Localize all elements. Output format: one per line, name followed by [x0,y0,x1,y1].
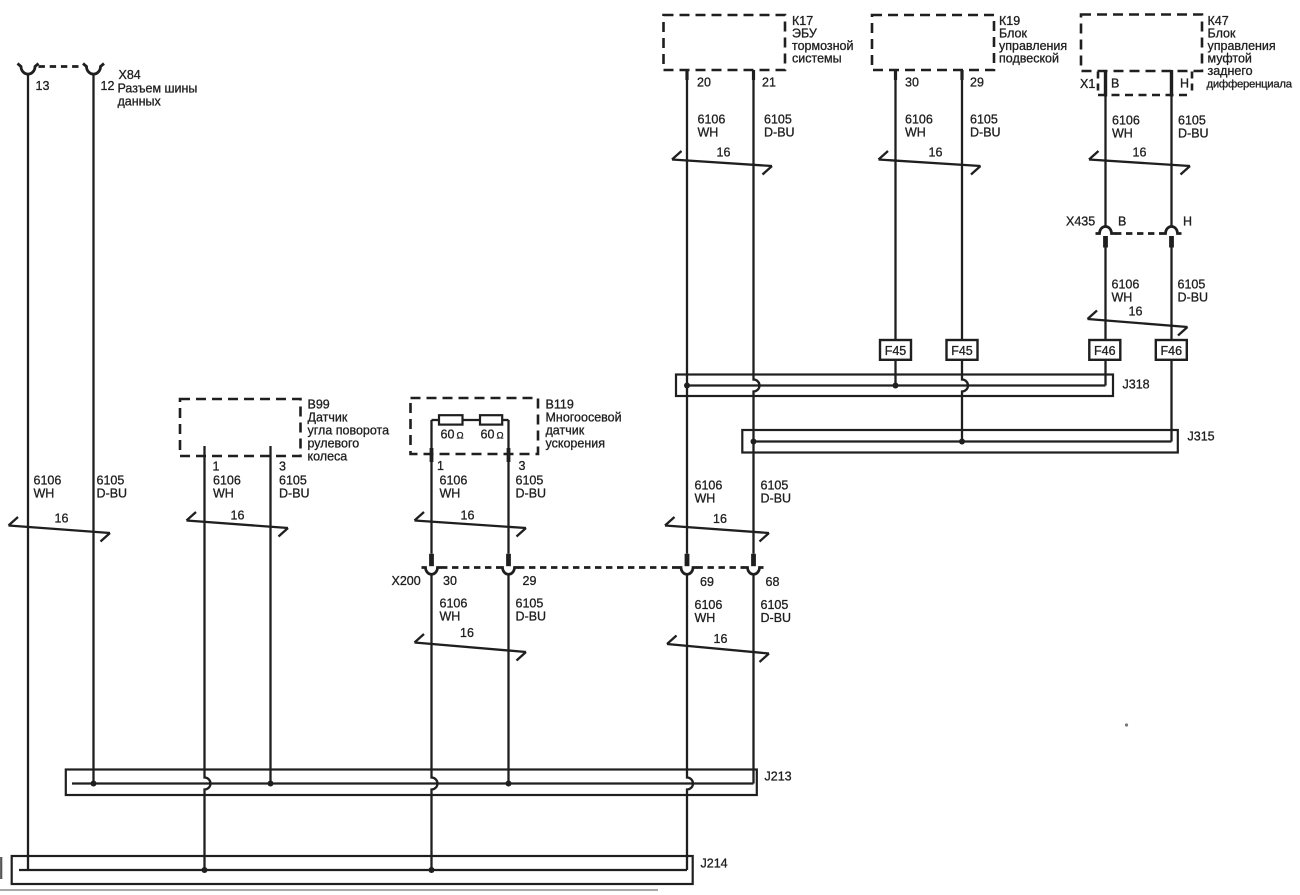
svg-text:D-BU: D-BU [516,610,547,624]
svg-text:WH: WH [698,126,719,140]
svg-text:D-BU: D-BU [1178,127,1209,141]
svg-text:30: 30 [905,76,919,90]
svg-text:D-BU: D-BU [970,126,1001,140]
svg-text:16: 16 [231,509,245,523]
svg-text:J214: J214 [701,857,728,871]
svg-text:D-BU: D-BU [764,126,795,140]
svg-text:WH: WH [440,610,461,624]
svg-text:В119: В119 [546,398,574,412]
svg-text:WH: WH [695,611,716,625]
svg-text:F45: F45 [885,344,907,358]
svg-text:дифференциала: дифференциала [1207,79,1293,91]
svg-text:6105: 6105 [1178,114,1206,128]
svg-text:6105: 6105 [97,474,125,488]
svg-text:16: 16 [1133,146,1147,160]
svg-text:Ω: Ω [457,431,464,442]
svg-text:16: 16 [461,509,475,523]
svg-text:Датчик: Датчик [308,411,348,425]
svg-text:60: 60 [481,428,495,442]
svg-text:1: 1 [437,459,444,473]
svg-text:WH: WH [34,487,55,501]
svg-text:6105: 6105 [279,474,307,488]
svg-text:WH: WH [440,487,461,501]
svg-text:X84: X84 [119,68,141,82]
svg-text:угла поворота: угла поворота [308,424,390,438]
svg-text:X435: X435 [1066,215,1095,229]
svg-text:D-BU: D-BU [516,487,547,501]
svg-text:J315: J315 [1188,430,1215,444]
svg-text:6105: 6105 [516,597,544,611]
svg-text:16: 16 [713,512,727,526]
svg-text:F45: F45 [951,344,973,358]
svg-text:6106: 6106 [440,474,468,488]
svg-text:B: B [1111,77,1119,91]
svg-text:рулевого: рулевого [308,437,360,451]
svg-text:20: 20 [697,76,711,90]
svg-text:60: 60 [441,428,455,442]
svg-text:Многоосевой: Многоосевой [546,411,622,425]
svg-text:X1: X1 [1080,77,1095,91]
svg-text:Ω: Ω [497,431,504,442]
svg-text:6106: 6106 [213,474,241,488]
svg-text:B: B [1118,215,1126,229]
svg-text:6106: 6106 [905,113,933,127]
svg-text:WH: WH [213,487,234,501]
svg-text:6105: 6105 [970,113,998,127]
svg-text:21: 21 [762,76,776,90]
svg-text:D-BU: D-BU [279,487,310,501]
svg-text:69: 69 [700,575,714,589]
svg-text:Разъем шины: Разъем шины [118,82,198,96]
svg-text:16: 16 [717,146,731,160]
svg-text:колеса: колеса [308,450,348,464]
svg-text:H: H [1183,215,1192,229]
svg-text:системы: системы [792,52,842,66]
svg-text:3: 3 [279,460,286,474]
svg-text:16: 16 [714,632,728,646]
svg-text:подвеской: подвеской [999,52,1059,66]
svg-text:WH: WH [1112,127,1133,141]
svg-text:WH: WH [905,126,926,140]
svg-text:13: 13 [36,79,50,93]
svg-text:J213: J213 [765,770,792,784]
svg-text:6106: 6106 [440,597,468,611]
svg-text:F46: F46 [1094,344,1116,358]
svg-text:F46: F46 [1161,344,1183,358]
svg-text:B99: B99 [308,398,330,412]
svg-text:29: 29 [970,76,984,90]
svg-text:WH: WH [695,492,716,506]
svg-text:6105: 6105 [516,474,544,488]
svg-text:D-BU: D-BU [1178,291,1209,305]
svg-text:H: H [1180,77,1189,91]
svg-text:68: 68 [766,575,780,589]
svg-text:6105: 6105 [1178,278,1206,292]
svg-text:6106: 6106 [695,479,723,493]
svg-text:16: 16 [929,146,943,160]
svg-text:16: 16 [1129,305,1143,319]
svg-text:29: 29 [523,574,537,588]
svg-text:3: 3 [519,459,526,473]
svg-text:ускорения: ускорения [546,437,605,451]
svg-text:J318: J318 [1123,378,1150,392]
svg-text:D-BU: D-BU [761,492,792,506]
svg-text:6106: 6106 [1112,114,1140,128]
svg-text:16: 16 [55,512,69,526]
svg-text:16: 16 [460,626,474,640]
svg-text:заднего: заднего [1208,64,1253,78]
svg-text:данных: данных [118,95,162,109]
svg-text:12: 12 [101,79,115,93]
svg-text:1: 1 [213,460,220,474]
svg-text:6105: 6105 [761,479,789,493]
svg-text:датчик: датчик [546,424,585,438]
svg-text:6106: 6106 [1112,278,1140,292]
svg-text:6106: 6106 [34,474,62,488]
svg-text:6105: 6105 [761,598,789,612]
svg-text:D-BU: D-BU [761,611,792,625]
svg-text:30: 30 [443,574,457,588]
svg-text:6106: 6106 [698,113,726,127]
svg-text:WH: WH [1112,291,1133,305]
svg-text:D-BU: D-BU [97,487,128,501]
svg-text:6106: 6106 [695,598,723,612]
svg-text:6105: 6105 [764,113,792,127]
svg-text:X200: X200 [392,574,421,588]
